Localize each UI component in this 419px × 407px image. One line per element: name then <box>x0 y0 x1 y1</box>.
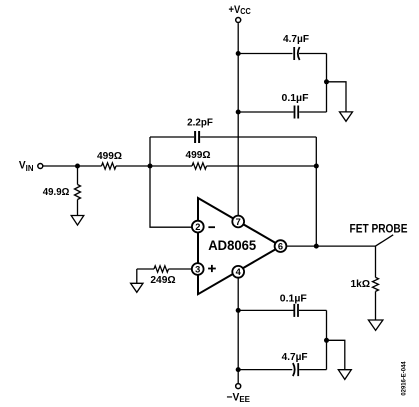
wire stub to top-right ground <box>327 82 347 112</box>
ground (bottom right) <box>338 370 351 380</box>
wire 249 ohm to ground <box>136 269 138 283</box>
wire feedback right vertical to output <box>315 137 317 246</box>
svg-text:49.9Ω: 49.9Ω <box>43 187 70 198</box>
resistor R1 499 ohm (input) <box>97 151 150 169</box>
capacitor C4 0.1uF (bottom) <box>238 294 326 317</box>
wire output from pin 6 <box>287 245 376 247</box>
svg-text:499Ω: 499Ω <box>186 150 211 161</box>
wire feedback left vertical to pin 2 <box>150 137 192 227</box>
pin 6 (output) <box>275 240 287 252</box>
capacitor C5 4.7uF (bottom) <box>238 352 326 376</box>
node junction feedback/R2 right <box>314 164 319 169</box>
svg-text:FET PROBE: FET PROBE <box>350 224 408 236</box>
resistor R2 499 ohm (feedback) <box>150 150 316 169</box>
node VIN terminal <box>19 160 43 173</box>
node junction VEE/0.1uF <box>236 308 241 313</box>
svg-text:2.2pF: 2.2pF <box>187 118 213 129</box>
pin 7 (V+) <box>232 216 244 228</box>
node junction top caps to ground <box>324 79 329 84</box>
node junction input/feedback <box>148 164 153 169</box>
svg-text:4.7µF: 4.7µF <box>283 34 309 45</box>
svg-text:2: 2 <box>195 222 200 232</box>
capacitor C1 4.7uF (top) <box>238 34 327 60</box>
svg-text:0.1µF: 0.1µF <box>282 93 309 104</box>
node FET PROBE leader and label <box>350 224 408 247</box>
pin 3 (non-inverting input) <box>192 263 216 275</box>
wire right vertical joining C4 and C5 <box>326 310 328 369</box>
pin 2 (inverting input) <box>192 221 215 233</box>
svg-text:249Ω: 249Ω <box>150 275 175 286</box>
svg-text:499Ω: 499Ω <box>97 151 122 162</box>
resistor R4 249 ohm <box>137 266 192 286</box>
svg-text:4: 4 <box>236 267 242 277</box>
ground (top right) <box>340 112 353 121</box>
wire VIN to R3 junction <box>43 165 101 167</box>
op-amp U1 AD8065 triangle <box>198 198 281 294</box>
svg-text:4.7µF: 4.7µF <box>282 352 308 363</box>
resistor R3 49.9 ohm <box>43 166 81 216</box>
wire right vertical joining C1 and C2 <box>326 54 328 113</box>
node junction VCC/4.7uF <box>236 51 241 56</box>
svg-text:AD8065: AD8065 <box>208 238 256 254</box>
node junction bottom caps to ground <box>324 338 329 343</box>
ground (below 249 ohm) <box>131 283 143 292</box>
node +VCC terminal <box>229 4 251 23</box>
svg-text:7: 7 <box>236 217 241 227</box>
svg-text:0.1µF: 0.1µF <box>280 294 307 305</box>
svg-text:1kΩ: 1kΩ <box>351 279 371 290</box>
ground (below 1k ohm) <box>368 320 383 330</box>
ground (below 49.9 ohm) <box>71 216 84 226</box>
capacitor C3 2.2pF (feedback) <box>150 118 316 144</box>
capacitor C2 0.1uF (top) <box>238 93 327 119</box>
node junction VEE/4.7uF <box>236 367 241 372</box>
node junction VCC/0.1uF <box>236 110 241 115</box>
wire +VCC vertical rail to pin 7 <box>237 23 239 216</box>
node -VEE terminal <box>227 384 251 404</box>
svg-text:−VEE: −VEE <box>227 392 251 404</box>
resistor R5 1k ohm <box>351 246 379 320</box>
svg-text:+VCC: +VCC <box>229 4 251 16</box>
node junction output/feedback <box>314 244 319 249</box>
wire pin 4 to -VEE rail <box>237 278 239 384</box>
svg-text:02916-E-044: 02916-E-044 <box>401 361 408 395</box>
svg-text:6: 6 <box>278 242 283 252</box>
pin 4 (V-) <box>232 266 244 278</box>
wire stub to bottom-right ground <box>327 340 345 369</box>
node junction VIN/49.9 <box>75 164 80 169</box>
svg-text:3: 3 <box>195 264 200 274</box>
